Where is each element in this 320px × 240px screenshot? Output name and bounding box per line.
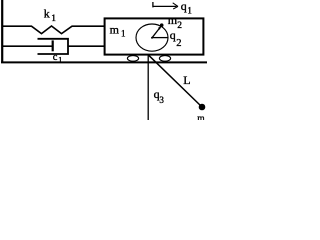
damper rod left bbox=[3, 45, 53, 47]
svg-text:1: 1 bbox=[187, 5, 192, 15]
disk bbox=[136, 24, 168, 51]
disk radius horizontal bbox=[152, 37, 168, 39]
svg-text:L: L bbox=[183, 73, 190, 87]
pendulum rod L bbox=[148, 55, 202, 107]
damper piston bbox=[52, 40, 54, 51]
svg-text:q: q bbox=[170, 28, 176, 42]
cart m1 bbox=[105, 18, 204, 54]
svg-text:2: 2 bbox=[177, 21, 182, 31]
svg-text:m: m bbox=[197, 114, 205, 120]
q1 arrow tick bbox=[152, 2, 154, 7]
ground bbox=[1, 61, 207, 63]
svg-text:1: 1 bbox=[58, 56, 62, 65]
q1 arrowhead bbox=[173, 3, 178, 9]
wheel right bbox=[159, 56, 170, 62]
mass m2 dot bbox=[160, 23, 164, 27]
svg-text:k: k bbox=[44, 7, 50, 21]
damper rod right bbox=[68, 45, 104, 47]
spring k1 bbox=[3, 26, 104, 34]
disk radius to m2 with arrow bbox=[152, 26, 161, 37]
q1 arrow shaft bbox=[153, 5, 177, 7]
pendulum reference vertical bbox=[147, 55, 149, 120]
disk center dot bbox=[151, 37, 153, 39]
svg-text:q: q bbox=[181, 0, 187, 13]
svg-text:m: m bbox=[110, 22, 120, 36]
pendulum bob m3 bbox=[199, 104, 206, 111]
wall bbox=[1, 0, 3, 63]
svg-text:c: c bbox=[53, 52, 58, 63]
svg-text:2: 2 bbox=[176, 38, 181, 49]
svg-text:1: 1 bbox=[51, 14, 56, 24]
wheel left bbox=[127, 56, 138, 62]
damper cylinder bbox=[38, 39, 69, 54]
svg-text:1: 1 bbox=[121, 29, 126, 39]
svg-text:3: 3 bbox=[159, 95, 164, 105]
